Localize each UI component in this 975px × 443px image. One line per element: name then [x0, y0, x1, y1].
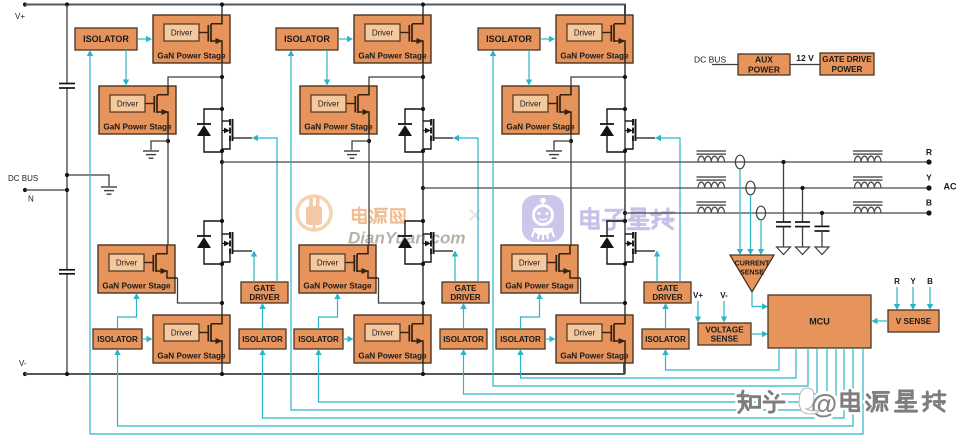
wire isolator to GaN B leg 2 — [326, 50, 328, 80]
diode D3H upper leg 3 — [600, 109, 625, 152]
svg-text:Driver: Driver — [519, 259, 541, 268]
svg-text:MCU: MCU — [809, 317, 830, 327]
wire gate driver to lower gate leg 3 — [656, 256, 658, 282]
watermark dianzixingqiu robot logo — [522, 195, 564, 242]
junction dot phase output leg 2 — [421, 186, 425, 190]
wire phase B line — [625, 212, 929, 214]
wire v sense to MCU — [877, 320, 888, 322]
svg-text:AUX: AUX — [755, 55, 773, 65]
wire isolator to GaN D leg 1 — [142, 338, 147, 340]
wire MCU feedback to leg 1 low-side isolator — [118, 348, 854, 426]
wire gate driver to upper gate leg 3 — [660, 138, 680, 282]
svg-text:ISOLATOR: ISOLATOR — [500, 335, 541, 344]
junction dot midpoint ground branch — [65, 173, 69, 177]
watermark dianzixingqiu text — [582, 208, 674, 229]
wire isolator to GaN B leg 1 — [125, 50, 127, 80]
GaN power stage block leg 2 A (high) — [354, 15, 431, 63]
wire phase R line — [222, 161, 929, 163]
wire isolator to GaN A leg 1 — [137, 38, 147, 40]
junction dot upper drain leg 3 — [623, 107, 627, 111]
svg-text:V-: V- — [19, 359, 27, 368]
junction dot lower drain leg 3 — [623, 219, 627, 223]
junction dot cap B — [820, 211, 824, 215]
block MCU — [768, 295, 871, 348]
isolator leg 3 high-side — [478, 28, 540, 50]
wire MCU feedback to leg 2 low-side isolator — [319, 348, 828, 402]
junction dot lower source leg 2 — [421, 262, 425, 266]
wire V+ rail — [25, 5, 625, 16]
block CURRENT SENSE — [730, 255, 774, 292]
wire CT R to current sense — [739, 169, 741, 249]
svg-text:ISOLATOR: ISOLATOR — [284, 34, 330, 44]
wire gate driver to lower gate leg 1 — [253, 256, 255, 282]
block VOLTAGE SENSE — [698, 323, 751, 345]
wire isolator to gate driver leg 2 — [463, 308, 465, 329]
svg-text:DC BUS: DC BUS — [8, 174, 38, 183]
junction dot GaN B source leg 2 — [367, 139, 371, 143]
junction dot leg 2 V- rail — [421, 372, 425, 376]
svg-text:B: B — [926, 198, 932, 208]
junction dot leg 1 V- rail — [220, 372, 224, 376]
svg-text:GaN Power Stage: GaN Power Stage — [358, 52, 427, 61]
svg-text:GaN Power Stage: GaN Power Stage — [506, 123, 575, 132]
svg-text:DRIVER: DRIVER — [249, 293, 279, 302]
wire V- into voltage sense — [723, 301, 725, 317]
node V- terminal — [23, 372, 27, 376]
svg-text:N: N — [28, 195, 34, 204]
svg-text:ISOLATOR: ISOLATOR — [645, 335, 686, 344]
wire MCU feedback to leg 2 gate isolator — [464, 348, 818, 394]
transistor Q1H upper leg 1 — [222, 119, 252, 149]
wire DC bus to aux power — [712, 64, 738, 66]
svg-text:GATE: GATE — [455, 284, 477, 293]
ground filter B — [815, 247, 829, 255]
svg-text:ISOLATOR: ISOLATOR — [443, 335, 484, 344]
wire isolator to GaN C leg 3 — [521, 298, 540, 329]
inductor L3a B — [697, 202, 727, 213]
isolator leg 3 low-side — [496, 329, 545, 349]
svg-text:GaN Power Stage: GaN Power Stage — [303, 282, 372, 291]
diode D1H upper leg 1 — [197, 109, 222, 152]
inductor L1b R — [853, 151, 883, 162]
wire gate driver to lower gate leg 2 — [454, 256, 456, 282]
junction dot lower drain leg 1 — [220, 219, 224, 223]
junction dot N midpoint — [65, 188, 69, 192]
wire B into v sense — [929, 287, 931, 305]
junction dot upper drain leg 2 — [421, 107, 425, 111]
junction dot GaN B source leg 3 — [569, 139, 573, 143]
node terminal B — [926, 210, 931, 215]
GaN power stage block leg 3 A (high) — [556, 15, 633, 63]
capacitor filter Y — [795, 222, 810, 227]
transistor Q3H upper leg 3 — [625, 119, 655, 149]
GaN power stage block leg 2 D (low) — [354, 315, 431, 363]
wire isolator to GaN C leg 1 — [118, 298, 137, 329]
svg-text:R: R — [926, 147, 932, 157]
junction dot lower source leg 1 — [220, 262, 224, 266]
transistor Q2H upper leg 2 — [423, 119, 453, 149]
junction dot GaN C/D node leg 2 — [421, 301, 425, 305]
svg-text:SENSE: SENSE — [740, 269, 764, 277]
wire isolator to gate driver leg 1 — [262, 308, 264, 329]
wire MCU feedback to leg 2 high-side isolator — [291, 54, 836, 410]
svg-text:GaN Power Stage: GaN Power Stage — [358, 352, 427, 361]
junction dot cap R — [781, 160, 785, 164]
wire MCU feedback to leg 3 high-side isolator — [493, 54, 808, 386]
GaN power stage block leg 1 D (low) — [153, 315, 230, 363]
svg-text:Driver: Driver — [317, 259, 339, 268]
svg-text:GaN Power Stage: GaN Power Stage — [560, 52, 629, 61]
GaN power stage block leg 3 C — [501, 245, 581, 293]
ground DC bus midpoint — [101, 187, 117, 194]
svg-text:VOLTAGE: VOLTAGE — [705, 325, 744, 334]
gate driver leg 2 — [442, 282, 489, 303]
wire cap R to ground — [783, 227, 785, 247]
svg-text:V-: V- — [720, 291, 728, 300]
svg-text:GaN Power Stage: GaN Power Stage — [157, 352, 226, 361]
GaN power stage block leg 2 B — [300, 86, 377, 134]
inductor L2a Y — [697, 177, 727, 188]
block AUX POWER — [738, 54, 790, 75]
junction dot GaN C/D node leg 3 — [623, 301, 627, 305]
GaN power stage block leg 1 B — [99, 86, 176, 134]
svg-text:GaN Power Stage: GaN Power Stage — [157, 52, 226, 61]
junction dot upper drain leg 1 — [220, 107, 224, 111]
svg-text:GaN Power Stage: GaN Power Stage — [102, 282, 171, 291]
svg-text:DRIVER: DRIVER — [652, 293, 682, 302]
wire isolator to GaN D leg 3 — [545, 338, 550, 340]
junction dot upper source leg 3 — [623, 149, 627, 153]
junction dot upper source leg 2 — [421, 149, 425, 153]
wire GaN C source to phase leg 1 — [178, 278, 223, 303]
wire isolator to GaN B leg 3 — [528, 50, 530, 80]
junction dot cap Y — [800, 186, 804, 190]
svg-text:Y: Y — [910, 277, 916, 286]
transistor Q2L lower leg 2 — [423, 232, 453, 262]
wire MCU feedback to leg 3 low-side isolator — [521, 348, 797, 378]
wire MCU feedback to leg 1 high-side isolator — [90, 54, 863, 434]
wire voltage sense to MCU — [751, 333, 762, 335]
wire cap B to ground — [821, 231, 823, 247]
wire isolator to GaN A leg 2 — [338, 38, 348, 40]
ground GaN B source leg 2 — [344, 151, 360, 158]
svg-text:@: @ — [811, 389, 837, 419]
wire cap branch Y — [802, 188, 804, 222]
GaN power stage block leg 2 C — [299, 245, 379, 293]
block V SENSE — [888, 310, 939, 332]
junction dot upper source leg 1 — [220, 149, 224, 153]
svg-text:DRIVER: DRIVER — [450, 293, 480, 302]
wire GaN B source node leg 3 — [570, 134, 572, 245]
svg-text:GATE DRIVE: GATE DRIVE — [822, 55, 872, 64]
wire phase Y line — [423, 187, 929, 189]
wire cap Y to ground — [802, 227, 804, 247]
ground GaN B source leg 1 — [143, 151, 159, 158]
wire GaN B source to ground leg 1 — [151, 141, 168, 150]
svg-text:GaN Power Stage: GaN Power Stage — [505, 282, 574, 291]
wire phase leg 2 vertical — [422, 5, 424, 375]
svg-text:Driver: Driver — [171, 329, 193, 338]
junction dot lower drain leg 2 — [421, 219, 425, 223]
wire GaN B source node leg 1 — [167, 134, 169, 245]
wire GaN C source to phase leg 3 — [581, 278, 626, 303]
wire gate driver to upper gate leg 1 — [257, 138, 277, 282]
wire isolator to GaN A leg 3 — [540, 38, 550, 40]
junction dot GaN B drain leg 3 — [623, 75, 627, 79]
junction dot GaN B drain leg 2 — [421, 75, 425, 79]
svg-text:SENSE: SENSE — [711, 334, 739, 343]
wire isolator to gate driver leg 3 — [665, 308, 667, 329]
svg-text:GaN Power Stage: GaN Power Stage — [103, 123, 172, 132]
svg-text:GATE: GATE — [254, 284, 276, 293]
wire isolator to GaN C leg 2 — [319, 298, 338, 329]
transistor Q3L lower leg 3 — [625, 232, 655, 262]
svg-text:Driver: Driver — [171, 29, 193, 38]
watermark zhihu text — [738, 388, 945, 419]
isolator leg 2 low-side — [294, 329, 343, 349]
transistor Q1L lower leg 1 — [222, 232, 252, 262]
wire phase leg 3 vertical — [624, 5, 626, 375]
junction dot GaN C/D node leg 1 — [220, 301, 224, 305]
svg-text:Y: Y — [926, 173, 932, 183]
gate driver leg 1 — [241, 282, 288, 303]
wire isolator to GaN D leg 2 — [343, 338, 348, 340]
watermark DianYuan chinese text — [353, 207, 405, 223]
svg-text:CURRENT: CURRENT — [735, 260, 770, 268]
svg-text:ISOLATOR: ISOLATOR — [83, 34, 129, 44]
wire midpoint to system ground — [67, 175, 109, 186]
wire Y into v sense — [912, 287, 914, 305]
ground filter Y — [796, 247, 810, 255]
node terminal R — [926, 159, 931, 164]
wire CT Y to current sense — [750, 195, 752, 249]
junction dot phase output leg 1 — [220, 160, 224, 164]
wire GaN B drain link leg 2 — [369, 77, 423, 86]
gate driver leg 3 — [644, 282, 691, 303]
svg-text:POWER: POWER — [832, 65, 863, 74]
wire GaN B drain link leg 1 — [168, 77, 222, 86]
wire V+ into voltage sense — [697, 301, 699, 317]
diode D1L lower leg 1 — [197, 221, 222, 264]
svg-text:AC: AC — [944, 182, 957, 192]
wire gate driver to upper gate leg 2 — [458, 138, 478, 282]
svg-text:GaN Power Stage: GaN Power Stage — [304, 123, 373, 132]
svg-text:B: B — [927, 277, 933, 286]
junction dot V- rail cap leg — [65, 372, 69, 376]
svg-text:R: R — [894, 277, 900, 286]
isolator leg 1 high-side — [75, 28, 137, 50]
wire V- rail — [25, 363, 624, 374]
svg-text:Driver: Driver — [372, 329, 394, 338]
svg-text:Driver: Driver — [318, 100, 340, 109]
svg-text:Driver: Driver — [117, 100, 139, 109]
block GATE DRIVE POWER — [820, 53, 874, 75]
isolator leg 2 gate — [440, 329, 487, 349]
node terminal Y — [926, 185, 931, 190]
isolator leg 2 high-side — [276, 28, 338, 50]
isolator leg 3 gate — [642, 329, 689, 349]
svg-text:V+: V+ — [693, 291, 703, 300]
GaN power stage block leg 3 D (low) — [556, 315, 633, 363]
current transformer CT R — [735, 155, 744, 169]
isolator leg 1 gate — [239, 329, 286, 349]
svg-text:Driver: Driver — [116, 259, 138, 268]
current transformer CT Y — [746, 181, 755, 195]
GaN power stage block leg 1 A (high) — [153, 15, 230, 63]
capacitor DC-link lower — [59, 270, 75, 274]
junction dot V+ rail cap leg — [65, 2, 69, 6]
wire phase leg 1 vertical — [221, 5, 223, 375]
wire cap branch R — [783, 162, 785, 222]
inductor L3b B — [853, 202, 883, 213]
diode D2H upper leg 2 — [398, 109, 423, 152]
inductor L1a R — [697, 151, 727, 162]
wire DC-link vertical — [66, 5, 68, 84]
ground filter R — [777, 247, 791, 255]
wire GaN C source to phase leg 2 — [379, 278, 424, 303]
inductor L2b Y — [853, 177, 883, 188]
svg-text:V+: V+ — [15, 12, 25, 21]
capacitor DC-link upper — [59, 84, 75, 89]
junction dot lower source leg 3 — [623, 262, 627, 266]
svg-text:ISOLATOR: ISOLATOR — [242, 335, 283, 344]
diode D3L lower leg 3 — [600, 221, 625, 264]
capacitor filter R — [776, 222, 791, 227]
isolator leg 1 low-side — [93, 329, 142, 349]
current transformer CT B — [756, 206, 765, 220]
GaN power stage block leg 3 B — [502, 86, 579, 134]
wire current sense to MCU — [752, 292, 762, 307]
node V+ terminal — [23, 2, 27, 6]
watermark DianYuan plug logo — [297, 196, 331, 231]
wire MCU feedback to leg 1 gate isolator — [263, 348, 845, 418]
svg-text:ISOLATOR: ISOLATOR — [298, 335, 339, 344]
wire aux to gate drive power — [790, 64, 820, 66]
svg-text:DC BUS: DC BUS — [694, 55, 726, 65]
wire CT B to current sense — [760, 220, 762, 249]
wire cap branch B — [821, 213, 823, 226]
svg-text:Driver: Driver — [574, 329, 596, 338]
svg-text:GaN Power Stage: GaN Power Stage — [560, 352, 629, 361]
svg-text:Driver: Driver — [574, 29, 596, 38]
svg-text:ISOLATOR: ISOLATOR — [97, 335, 138, 344]
svg-text:ISOLATOR: ISOLATOR — [486, 34, 532, 44]
ground GaN B source leg 3 — [546, 151, 562, 158]
junction dot phase output leg 3 — [623, 211, 627, 215]
wire GaN B source to ground leg 3 — [554, 141, 571, 150]
junction dot leg 2 top rail — [421, 2, 425, 6]
capacitor filter B — [815, 226, 830, 231]
junction dot GaN B drain leg 1 — [220, 75, 224, 79]
junction dot GaN B source leg 1 — [166, 139, 170, 143]
svg-text:Driver: Driver — [372, 29, 394, 38]
GaN power stage block leg 1 C — [98, 245, 178, 293]
wire N to DC-link midpoint — [25, 189, 67, 191]
wire GaN B source node leg 2 — [368, 134, 370, 245]
svg-text:12 V: 12 V — [796, 53, 814, 63]
node N terminal — [23, 188, 27, 192]
diode D2L lower leg 2 — [398, 221, 423, 264]
svg-text:×: × — [467, 200, 483, 230]
wire R into v sense — [896, 287, 898, 305]
svg-text:Driver: Driver — [520, 100, 542, 109]
wire MCU feedback to leg 3 gate isolator — [666, 348, 780, 370]
svg-text:V SENSE: V SENSE — [896, 317, 932, 326]
svg-text:POWER: POWER — [748, 65, 780, 75]
junction dot leg 1 top rail — [220, 2, 224, 6]
wire GaN B drain link leg 3 — [571, 77, 625, 86]
wire GaN B source to ground leg 2 — [352, 141, 369, 150]
svg-text:GATE: GATE — [657, 284, 679, 293]
